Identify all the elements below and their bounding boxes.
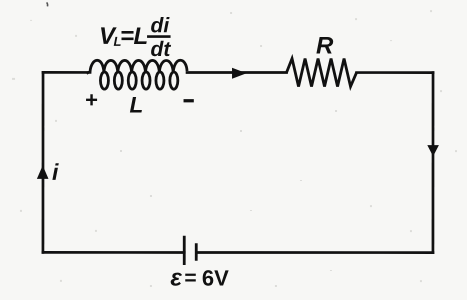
svg-text:R: R [316, 33, 334, 60]
svg-text:+: + [85, 87, 98, 112]
svg-text:6V: 6V [202, 265, 229, 290]
svg-text:dt: dt [151, 38, 172, 61]
svg-text:di: di [151, 14, 171, 37]
svg-text:=: = [184, 266, 196, 289]
svg-text:i: i [52, 159, 59, 185]
svg-text:ε: ε [170, 264, 182, 291]
svg-text:=: = [121, 22, 135, 49]
svg-text:L: L [130, 92, 144, 117]
svg-text:L: L [134, 23, 149, 50]
